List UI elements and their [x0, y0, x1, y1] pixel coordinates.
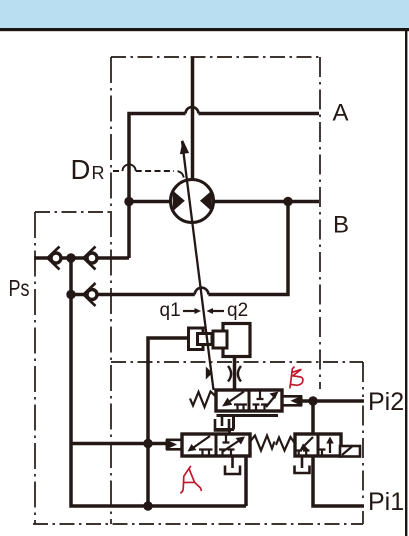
valve B pilot arrowhead — [291, 395, 303, 406]
valve C metering box — [340, 446, 360, 457]
motor M1 flow triangle left — [173, 191, 185, 212]
red annotation B — [290, 367, 303, 389]
junction: Ps lower node — [66, 290, 75, 299]
enclosure chain line: main unit left — [110, 57, 112, 524]
enclosure chain line: main unit right — [319, 57, 321, 389]
valve A drain bracket — [225, 466, 240, 475]
wire: valve C to Pi1 elbow + Pi1 line — [313, 456, 364, 506]
svg-text:q1: q1 — [160, 300, 181, 321]
valve B spring — [190, 392, 216, 408]
valve B tank rail — [217, 414, 279, 417]
enclosure chain line: regulator box top — [111, 361, 363, 363]
wire: servo piston to valve B — [233, 355, 237, 390]
check valve CV1 ball — [51, 253, 61, 263]
svg-text:A: A — [333, 100, 349, 127]
DR leader dashed right — [136, 170, 174, 172]
servo cylinder small (q1 side) — [189, 328, 204, 350]
valve B pilot channel — [283, 396, 302, 405]
valve C drain stub — [301, 456, 304, 468]
svg-text:Pi1: Pi1 — [368, 488, 404, 516]
svg-text:Pi2: Pi2 — [368, 388, 404, 416]
junction: B/motor node — [283, 197, 292, 206]
wire: A line hop over drain line — [186, 107, 199, 114]
wire: valve B rail to valve A top — [216, 416, 234, 435]
motor M1 flow triangle right — [200, 191, 212, 212]
valve B right cell top port — [257, 390, 264, 399]
valve C body — [295, 434, 341, 456]
DR leader hop arc — [123, 164, 136, 171]
valve C left cell arrow — [303, 437, 313, 447]
valve C spring — [276, 437, 295, 451]
wire: q-line left segment — [71, 293, 195, 297]
valve C drain bracket — [295, 466, 310, 474]
q2 arrow — [211, 310, 224, 312]
wire: motor line right to port B — [213, 200, 320, 204]
wire: port A line right segment — [199, 112, 320, 116]
motor M1 body — [171, 180, 214, 223]
valve B left cell arrow — [230, 392, 244, 402]
junction: Pi2 node — [308, 396, 317, 405]
swash lever arrowhead — [180, 140, 189, 155]
check valve CV2 seat — [84, 247, 96, 270]
wire: valve A tank drop — [244, 454, 248, 506]
valve B right cell blocked ports — [253, 405, 269, 412]
valve A divider — [215, 434, 218, 456]
junction: Ps upper node — [66, 253, 75, 262]
wire: servo feed + pilot riser x148 — [148, 338, 189, 506]
svg-text:R: R — [92, 163, 105, 183]
check valve CV1 seat — [48, 247, 60, 270]
wire: motor line left — [129, 200, 172, 204]
svg-text:B: B — [333, 212, 349, 239]
wire: q-line hop over feedback lever — [195, 288, 209, 295]
wire: port A line left segment + drop to Ps node — [129, 114, 186, 259]
valve A left cell arrow — [194, 436, 211, 448]
check valve CV2 ball — [87, 253, 97, 263]
valve C left cell blocked ports — [296, 451, 310, 457]
wire: Ps vertical run + bottom return line — [71, 258, 246, 506]
page border right — [405, 30, 407, 536]
valve A pilot arrowhead — [166, 439, 178, 449]
enclosure chain line: regulator box right — [362, 362, 364, 524]
DR leader curl — [178, 171, 184, 177]
valve A body — [182, 434, 250, 456]
servo piston large — [213, 331, 227, 348]
valve B body — [216, 390, 282, 411]
valve A right cell arrow — [222, 440, 240, 452]
page header band — [0, 0, 409, 28]
valve C right cell blocked port — [319, 450, 326, 457]
valve B right cell arrow — [266, 396, 275, 407]
svg-text:q2: q2 — [227, 300, 248, 321]
valve B divider — [248, 390, 251, 411]
junction: bottom rail node — [143, 501, 152, 510]
servo cylinder large (q2 side) — [223, 324, 250, 357]
valve C right cell up arrow — [329, 442, 331, 453]
valve C divider — [317, 434, 320, 456]
valve A pilot channel — [166, 440, 182, 450]
enclosure chain line: Ps box left — [34, 212, 36, 524]
valve A right cell top port — [223, 434, 230, 443]
valve B drain stub — [221, 416, 224, 427]
wire: Pi2 line — [302, 399, 364, 403]
wire: valve A pilot line — [71, 442, 166, 446]
valve A left cell blocked ports — [199, 450, 213, 457]
valve C metering diagonal — [342, 447, 352, 456]
junction: A/motor node — [124, 197, 133, 206]
swash feedback lever — [182, 141, 214, 390]
red annotation A — [180, 466, 201, 493]
valve B left cell blocked ports — [234, 405, 247, 412]
svg-text:Ps: Ps — [9, 275, 30, 301]
servo piston small — [198, 334, 213, 345]
DR leader dashed — [113, 170, 123, 172]
valve A right cell blocked ports — [219, 450, 235, 457]
feedback link arcs — [228, 366, 241, 382]
valve A drain stub — [231, 456, 234, 468]
enclosure chain line: bottom — [33, 523, 363, 525]
swash lever end tick — [206, 367, 213, 380]
wire: B branch down + q-line right segment — [208, 202, 288, 295]
wire: case drain vertical — [191, 57, 195, 181]
wire: Pi2 down to valve C — [311, 401, 315, 434]
valve A spring — [250, 436, 275, 451]
wire: Ps supply upper line — [34, 256, 129, 260]
q1 arrow — [183, 310, 196, 312]
enclosure chain line: main unit top — [111, 56, 320, 58]
check valve CV3 ball — [87, 290, 97, 300]
enclosure chain line: Ps box top — [35, 211, 111, 213]
svg-text:D: D — [71, 154, 91, 185]
junction: pilot cross node — [143, 439, 152, 448]
page border top — [0, 28, 409, 31]
check valve CV3 seat — [84, 283, 96, 306]
valve B drain bracket — [215, 419, 229, 431]
